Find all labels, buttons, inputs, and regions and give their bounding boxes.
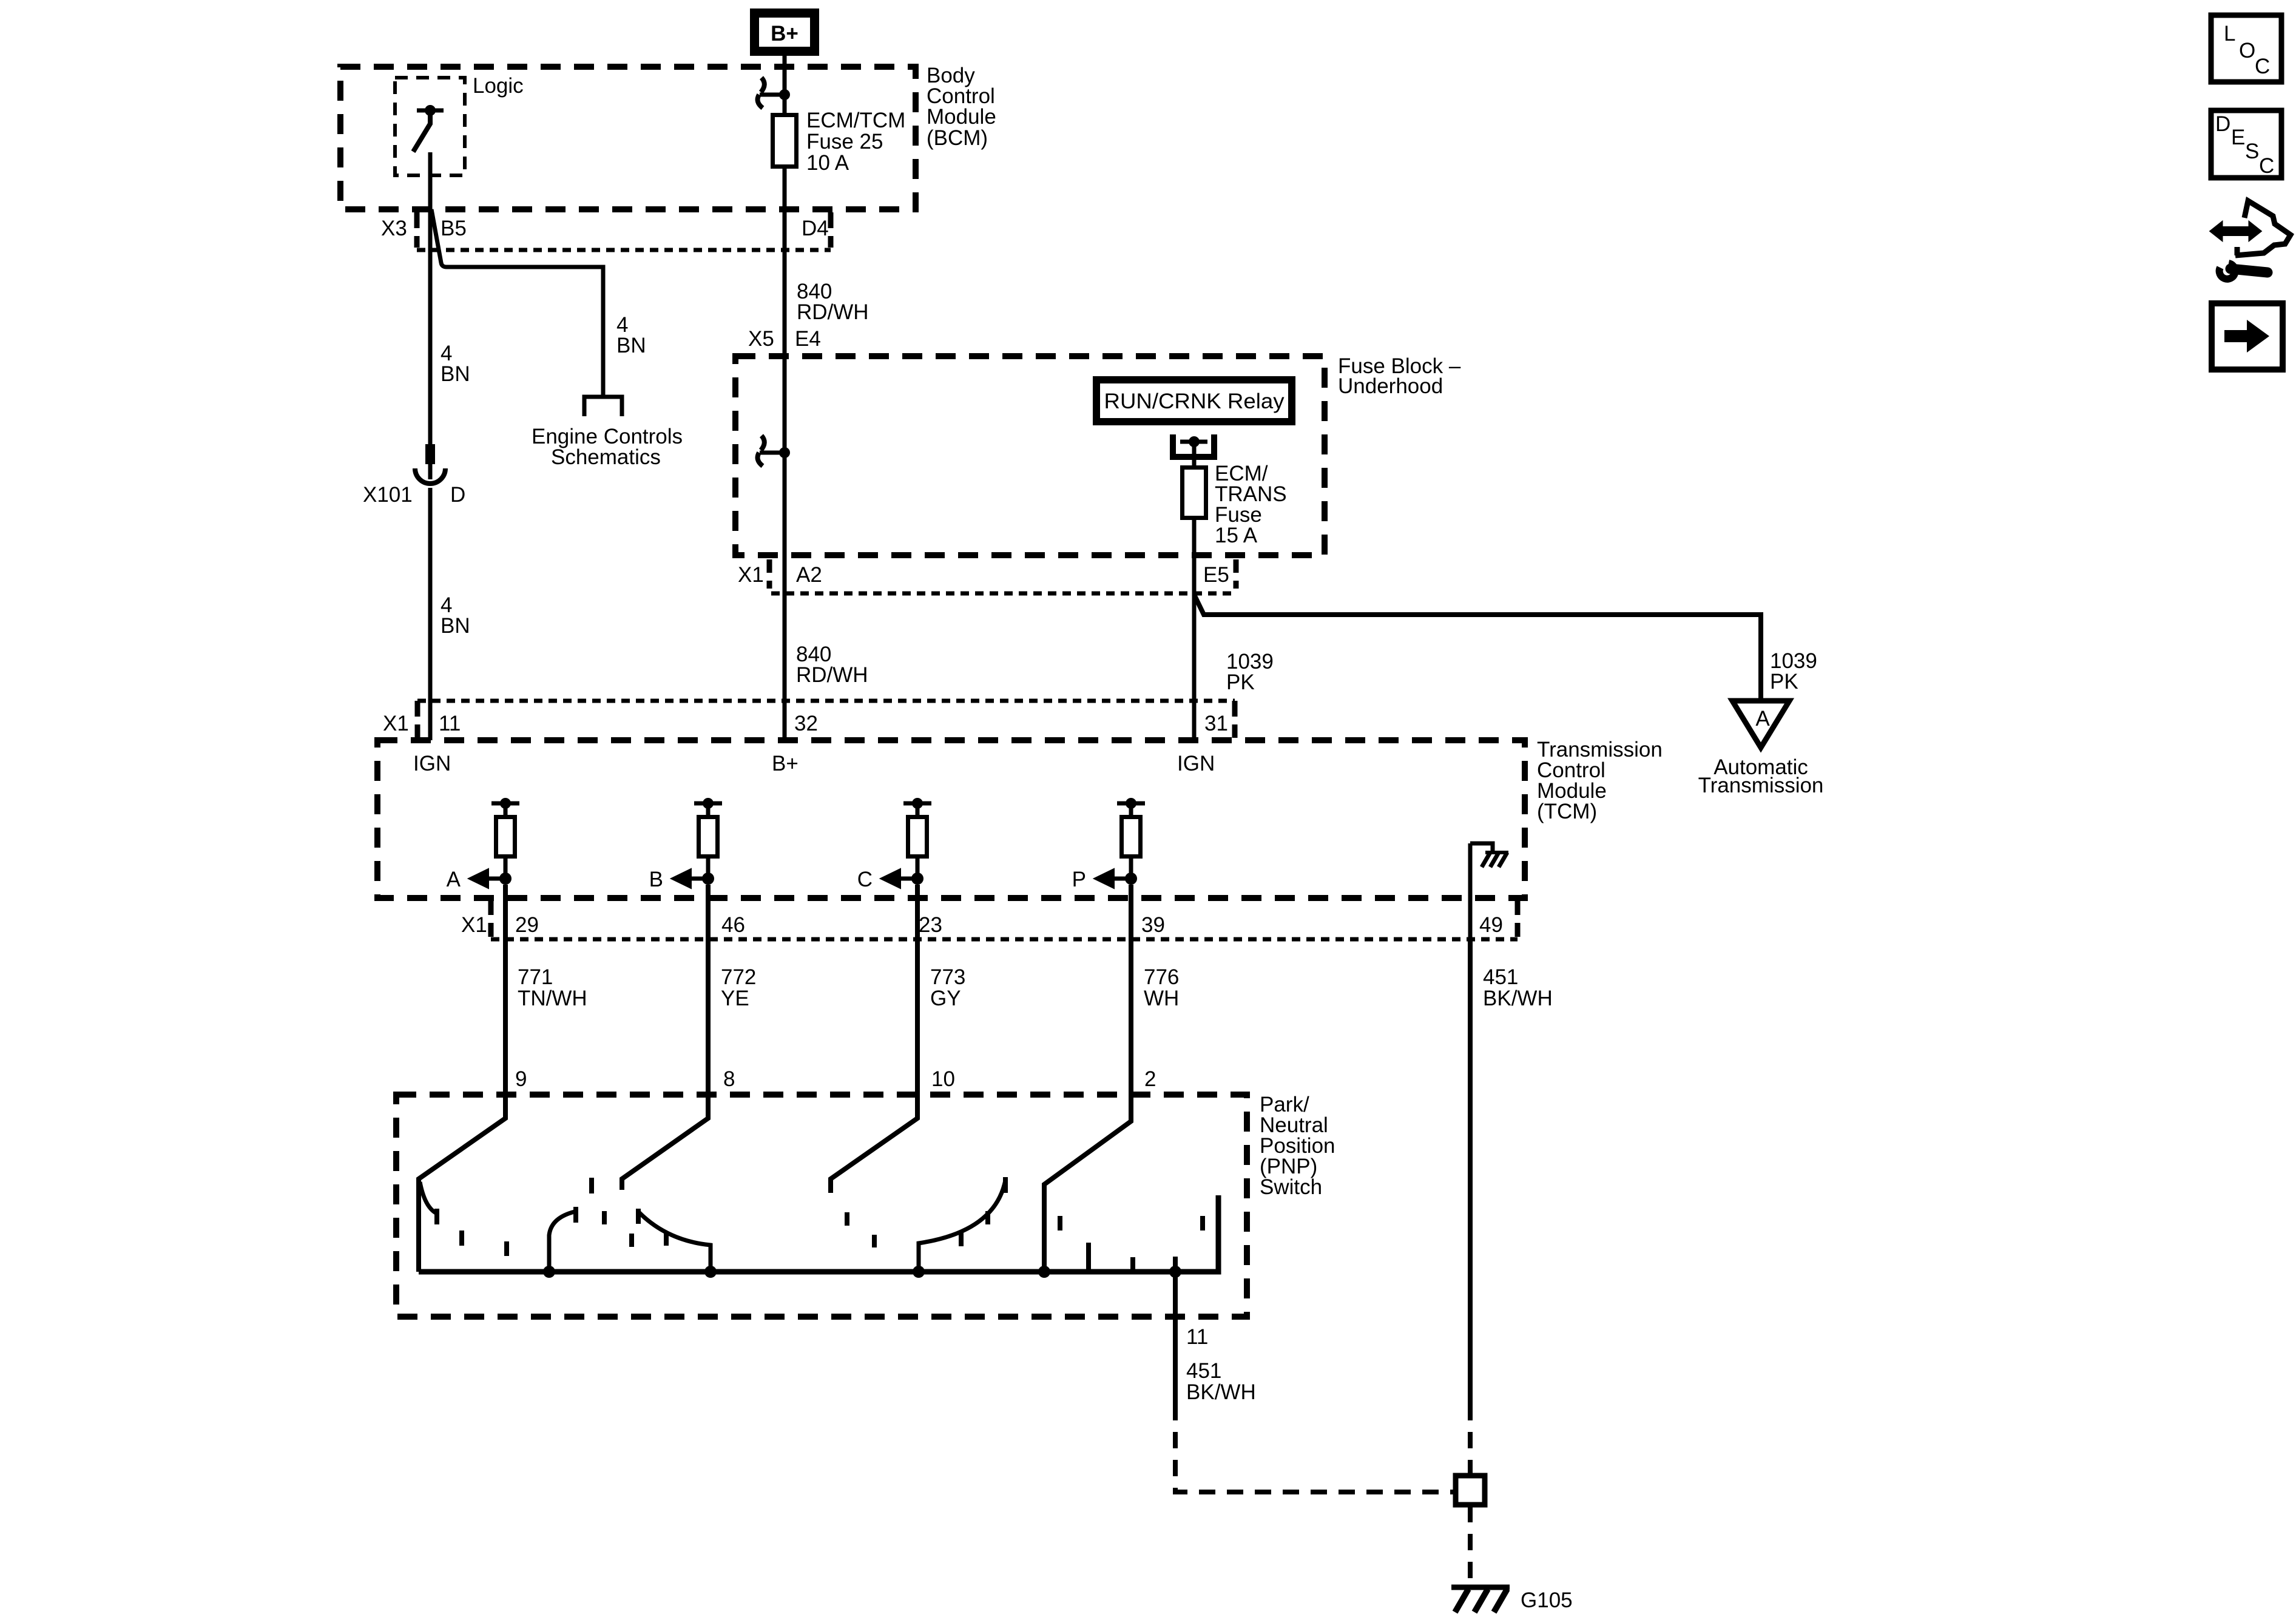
module box Fuse Block - Underhood dashed outline [735,356,1325,555]
wire 4 BN vertical from logic switch to X101 [428,152,433,479]
wire TCM ground to pin 49 [1468,843,1473,939]
module box Transmission Control Module (TCM) dashed outline [377,740,1525,898]
svg-text:YE: YE [721,987,749,1010]
svg-text:451: 451 [1483,965,1518,989]
svg-text:39: 39 [1141,913,1165,937]
pole A wiper travel arc [420,1182,437,1214]
sidebar icon LOC box [2211,15,2281,82]
driver coil B with output arrow [649,798,722,891]
svg-text:B: B [649,868,663,891]
svg-text:23: 23 [919,913,942,937]
svg-text:O: O [2239,39,2255,62]
svg-text:10: 10 [931,1067,955,1091]
switch common bus line inside PNP [419,1195,1218,1272]
ticks on pole C selected arc [961,1211,988,1246]
svg-text:IGN: IGN [413,752,451,775]
svg-text:8: 8 [723,1067,735,1091]
module box Park/Neutral Position (PNP) Switch dashed outline [396,1095,1247,1317]
svg-text:P: P [1072,868,1086,891]
svg-text:C: C [2255,55,2270,78]
driver coil P with output arrow [1072,798,1145,891]
svg-text:S: S [2245,140,2259,163]
off-page reference bracket to Engine Controls Schematics [584,397,622,416]
svg-text:L: L [2224,22,2235,46]
svg-text:772: 772 [721,965,756,989]
svg-text:46: 46 [721,913,745,937]
svg-text:11: 11 [1186,1325,1208,1349]
svg-text:BN: BN [441,362,470,386]
svg-text:RD/WH: RD/WH [796,663,868,687]
svg-text:X1: X1 [738,563,764,587]
svg-text:Fuse 25: Fuse 25 [806,130,883,154]
switch S1 logic output driver [413,105,444,152]
svg-text:BN: BN [616,334,646,357]
svg-text:31: 31 [1204,712,1228,735]
in-line connector symbol on B+ feed inside BCM [758,78,790,108]
in-line connector symbol on BCM B+ wire inside fuse block [758,436,790,466]
svg-text:A: A [1755,707,1770,731]
svg-text:773: 773 [930,965,965,989]
wire 4 BN lower from X101 to TCM pin 11 [428,488,433,740]
svg-text:B5: B5 [441,217,467,240]
svg-text:BK/WH: BK/WH [1186,1380,1256,1404]
driver coil C with output arrow [857,798,931,891]
junction dot pin 11 tap on bus [1169,1266,1181,1278]
svg-text:TN/WH: TN/WH [518,987,587,1010]
svg-text:Module: Module [927,105,996,129]
logic block dashed box [395,78,465,175]
svg-text:RUN/CRNK Relay: RUN/CRNK Relay [1104,390,1285,413]
wire dashed from splice to G105 [1468,1506,1473,1585]
svg-text:X1: X1 [461,913,487,937]
svg-text:X1: X1 [383,712,409,735]
svg-text:E4: E4 [795,327,821,351]
svg-text:29: 29 [515,913,539,937]
svg-text:B+: B+ [771,22,799,46]
svg-text:Transmission: Transmission [1698,774,1824,797]
wire 451 BK/WH dashed to splice [1175,1404,1454,1492]
connector X101 in-line terminal [415,444,445,484]
svg-text:E5: E5 [1203,563,1229,587]
pole P contact ticks [1060,1216,1203,1272]
pole C free ticks [847,1212,874,1247]
svg-text:Switch: Switch [1260,1175,1322,1199]
junction dot pole C left contact on bus [704,1266,717,1278]
svg-text:X5: X5 [748,327,774,351]
svg-text:RD/WH: RD/WH [797,300,869,324]
connector row X1 fuse block separator bars and dotted line [769,559,1237,593]
sidebar icon forward arrow box [2212,303,2283,370]
svg-text:WH: WH [1144,987,1179,1010]
sidebar icon connector tool with double arrow and wrench [2210,201,2291,279]
wire C 773 GY from TCM pin 23 to PNP pin 10 [831,885,917,1193]
relay output pin cup terminal [1173,434,1214,457]
svg-text:A: A [447,868,461,891]
svg-text:2: 2 [1144,1067,1156,1091]
pole B selected contact arc to bus [549,1212,575,1272]
svg-text:B+: B+ [772,752,799,775]
svg-text:BN: BN [441,614,470,638]
wire B 772 YE from TCM pin 46 to PNP pin 8 [622,885,708,1190]
svg-text:BK/WH: BK/WH [1483,987,1553,1010]
svg-text:11: 11 [439,712,461,735]
wire 1039 PK from fuse to TCM pin 31 [1192,518,1197,740]
wire branch 4 BN from B5 to engine controls [431,209,603,395]
wire 451 BK/WH dashed from TCM pin 49 [1468,939,1473,1404]
ground G105 symbol [1451,1587,1510,1612]
svg-text:G105: G105 [1521,1588,1573,1612]
pole B contact ticks [576,1178,632,1247]
svg-text:771: 771 [518,965,553,989]
connector row X1 TCM top bars and dotted line [417,701,1235,738]
wire from relay pin to fuse [1192,442,1197,467]
svg-text:Underhood: Underhood [1338,374,1443,398]
splice S square connector [1456,1476,1485,1505]
junction dot pole C right contact on bus [913,1266,925,1278]
fuse F25 ECM/TCM Fuse 25 10 A [773,115,797,167]
svg-text:D: D [450,483,465,507]
svg-text:D: D [2215,112,2230,136]
wire P 776 WH from TCM pin 39 to PNP pin 2 [1044,885,1131,1272]
tick on pole C left arc [664,1232,669,1246]
svg-text:15 A: 15 A [1215,524,1258,547]
power symbol B+ battery feed [755,13,815,52]
svg-text:Logic: Logic [473,74,524,98]
svg-text:32: 32 [794,712,818,735]
wire 840 RD/WH from B+ through BCM to TCM pin 32 [783,52,787,115]
wire A 771 TN/WH from TCM pin 29 to PNP pin 9 [419,885,505,1272]
fuse F ECM/TRANS Fuse 15 A [1183,468,1206,518]
ground symbol inside TCM at pin 49 [1470,843,1508,867]
pole A contact ticks [437,1209,507,1256]
svg-text:776: 776 [1144,965,1179,989]
svg-text:PK: PK [1226,670,1255,694]
relay K RUN/CRNK Relay bold box [1096,380,1292,422]
svg-text:C: C [857,868,873,891]
svg-text:X3: X3 [381,217,407,240]
svg-text:(BCM): (BCM) [927,126,988,150]
svg-text:C: C [2259,154,2274,178]
svg-text:D4: D4 [802,217,829,240]
svg-text:Schematics: Schematics [551,445,661,469]
svg-text:A2: A2 [796,563,822,587]
svg-text:(TCM): (TCM) [1537,800,1597,823]
svg-text:X101: X101 [363,483,413,507]
wire 1039 PK branch from E5 to automatic transmission [1194,595,1761,701]
svg-text:PK: PK [1770,670,1798,694]
junction dot pole B contact on bus [543,1266,555,1278]
pole C selected contact arc to bus [919,1180,1005,1272]
junction dot pole P pivot on bus [1038,1266,1050,1278]
wire 451 BK/WH from PNP pin 11 solid part [1173,1272,1178,1404]
svg-text:IGN: IGN [1177,752,1215,775]
connector row X1 TCM bottom bars and dotted line [491,899,1518,939]
svg-text:451: 451 [1186,1359,1221,1383]
svg-text:10 A: 10 A [806,151,849,175]
svg-text:E: E [2231,126,2245,149]
pole C arc end tick [1003,1177,1008,1193]
module box Body Control Module (BCM) dashed outline [340,67,916,209]
svg-text:ECM/TCM: ECM/TCM [806,109,905,132]
connector row X3 separator bars and dotted line [417,212,831,250]
pole C left contact arc to bus [639,1212,711,1272]
svg-text:9: 9 [515,1067,527,1091]
sidebar icon DESC box [2211,110,2281,178]
driver coil A with output arrow [447,798,519,891]
connector A triangle to Automatic Transmission [1732,701,1789,748]
svg-text:49: 49 [1479,913,1503,937]
pole C left arc end tick [636,1209,641,1224]
svg-text:GY: GY [930,987,961,1010]
